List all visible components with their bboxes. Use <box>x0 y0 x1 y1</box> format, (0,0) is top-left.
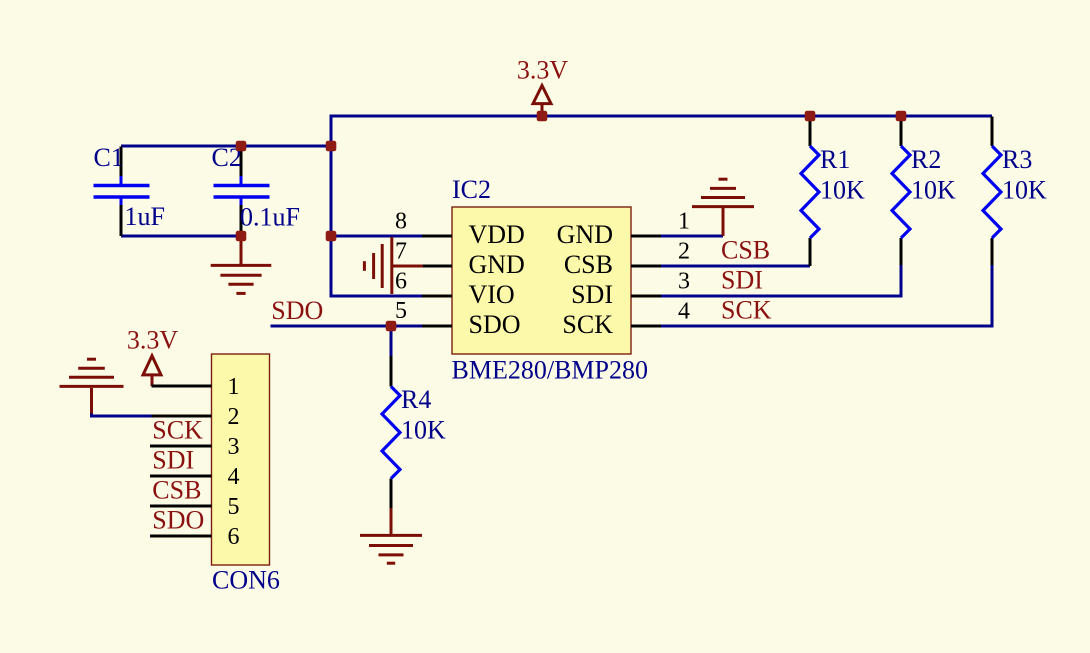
svg-text:1uF: 1uF <box>125 202 165 231</box>
svg-text:IC2: IC2 <box>452 175 491 204</box>
resistor R1 <box>801 117 865 267</box>
wire caps bottom <box>121 235 241 238</box>
svg-text:6: 6 <box>228 524 240 550</box>
junction dot C2 top <box>236 141 247 152</box>
svg-text:VIO: VIO <box>469 280 515 309</box>
svg-text:CSB: CSB <box>152 476 201 505</box>
svg-text:8: 8 <box>395 209 407 235</box>
svg-text:3.3V: 3.3V <box>127 326 179 355</box>
svg-text:7: 7 <box>395 239 407 265</box>
power 3.3V top <box>533 86 551 115</box>
svg-text:CON6: CON6 <box>212 566 280 595</box>
junction dot 3.3V rail <box>537 111 548 122</box>
wire R4 drop <box>390 326 393 356</box>
svg-text:R4: R4 <box>401 385 431 414</box>
IC U1 BME280 box <box>452 207 631 354</box>
svg-text:10K: 10K <box>820 176 865 205</box>
svg-text:SDO: SDO <box>469 310 521 339</box>
junction dot C2 bottom <box>236 231 247 242</box>
ground at CON6 <box>60 359 124 413</box>
CON6 pins <box>150 386 212 536</box>
svg-text:10K: 10K <box>911 176 956 205</box>
wire SDI pin 3 <box>661 265 901 296</box>
svg-text:3: 3 <box>678 269 690 295</box>
resistor R3 <box>983 117 1047 266</box>
svg-text:2: 2 <box>228 404 240 430</box>
resistor R4 <box>382 356 446 508</box>
svg-text:SDI: SDI <box>152 446 194 475</box>
svg-text:SCK: SCK <box>152 416 203 445</box>
wire CSB pin 2 <box>661 265 810 268</box>
svg-text:10K: 10K <box>401 416 446 445</box>
wire caps top <box>121 145 331 148</box>
IC left pins <box>422 236 452 326</box>
junction dot R1 top <box>805 111 816 122</box>
wire SCK pin 4 <box>661 265 992 326</box>
wire VDD pin 8 <box>331 235 422 238</box>
connector CON6 box <box>212 354 270 565</box>
svg-text:R3: R3 <box>1002 145 1032 174</box>
ground at IC pin 1 <box>692 179 754 236</box>
svg-text:GND: GND <box>557 220 613 249</box>
svg-text:4: 4 <box>228 464 240 490</box>
svg-text:5: 5 <box>395 298 407 324</box>
svg-text:SCK: SCK <box>562 310 613 339</box>
svg-text:1: 1 <box>678 209 690 235</box>
junction dot rail cap <box>326 141 337 152</box>
wire 3.3V top rail with rail drop and VIO feed <box>331 116 992 296</box>
ground at IC pin 7 rotated <box>364 237 423 294</box>
svg-text:SDI: SDI <box>721 266 763 295</box>
svg-text:C1: C1 <box>94 143 124 172</box>
junction dot rail VDD <box>326 231 337 242</box>
svg-text:SCK: SCK <box>721 296 772 325</box>
wire SDO pin 5 <box>271 325 423 328</box>
svg-text:CSB: CSB <box>564 250 613 279</box>
wire CON6 pin 2 <box>92 413 152 416</box>
resistor R2 <box>892 117 956 266</box>
svg-text:VDD: VDD <box>469 220 525 249</box>
svg-text:CSB: CSB <box>721 236 770 265</box>
svg-text:BME280/BMP280: BME280/BMP280 <box>452 356 649 385</box>
svg-text:5: 5 <box>228 494 240 520</box>
ground under C2 <box>211 236 272 293</box>
svg-text:SDO: SDO <box>271 296 323 325</box>
svg-text:GND: GND <box>469 250 525 279</box>
junction dot R2 top <box>896 111 907 122</box>
svg-text:SDI: SDI <box>571 280 613 309</box>
wire pin 1 GND <box>661 235 723 238</box>
svg-text:SDO: SDO <box>152 506 204 535</box>
svg-text:10K: 10K <box>1002 176 1047 205</box>
IC right pins <box>631 236 661 326</box>
svg-text:6: 6 <box>395 269 407 295</box>
svg-text:R2: R2 <box>911 145 941 174</box>
svg-text:2: 2 <box>678 239 690 265</box>
power 3.3V CON6 <box>143 356 161 386</box>
svg-text:3: 3 <box>228 434 240 460</box>
capacitor C2 <box>212 143 300 236</box>
svg-text:1: 1 <box>228 374 240 400</box>
ground under R4 <box>360 508 422 563</box>
junction dot SDO R4 <box>386 321 397 332</box>
capacitor C1 <box>94 143 165 236</box>
svg-text:R1: R1 <box>820 145 850 174</box>
svg-text:0.1uF: 0.1uF <box>240 203 300 232</box>
svg-text:4: 4 <box>678 299 690 325</box>
svg-text:3.3V: 3.3V <box>517 56 569 85</box>
